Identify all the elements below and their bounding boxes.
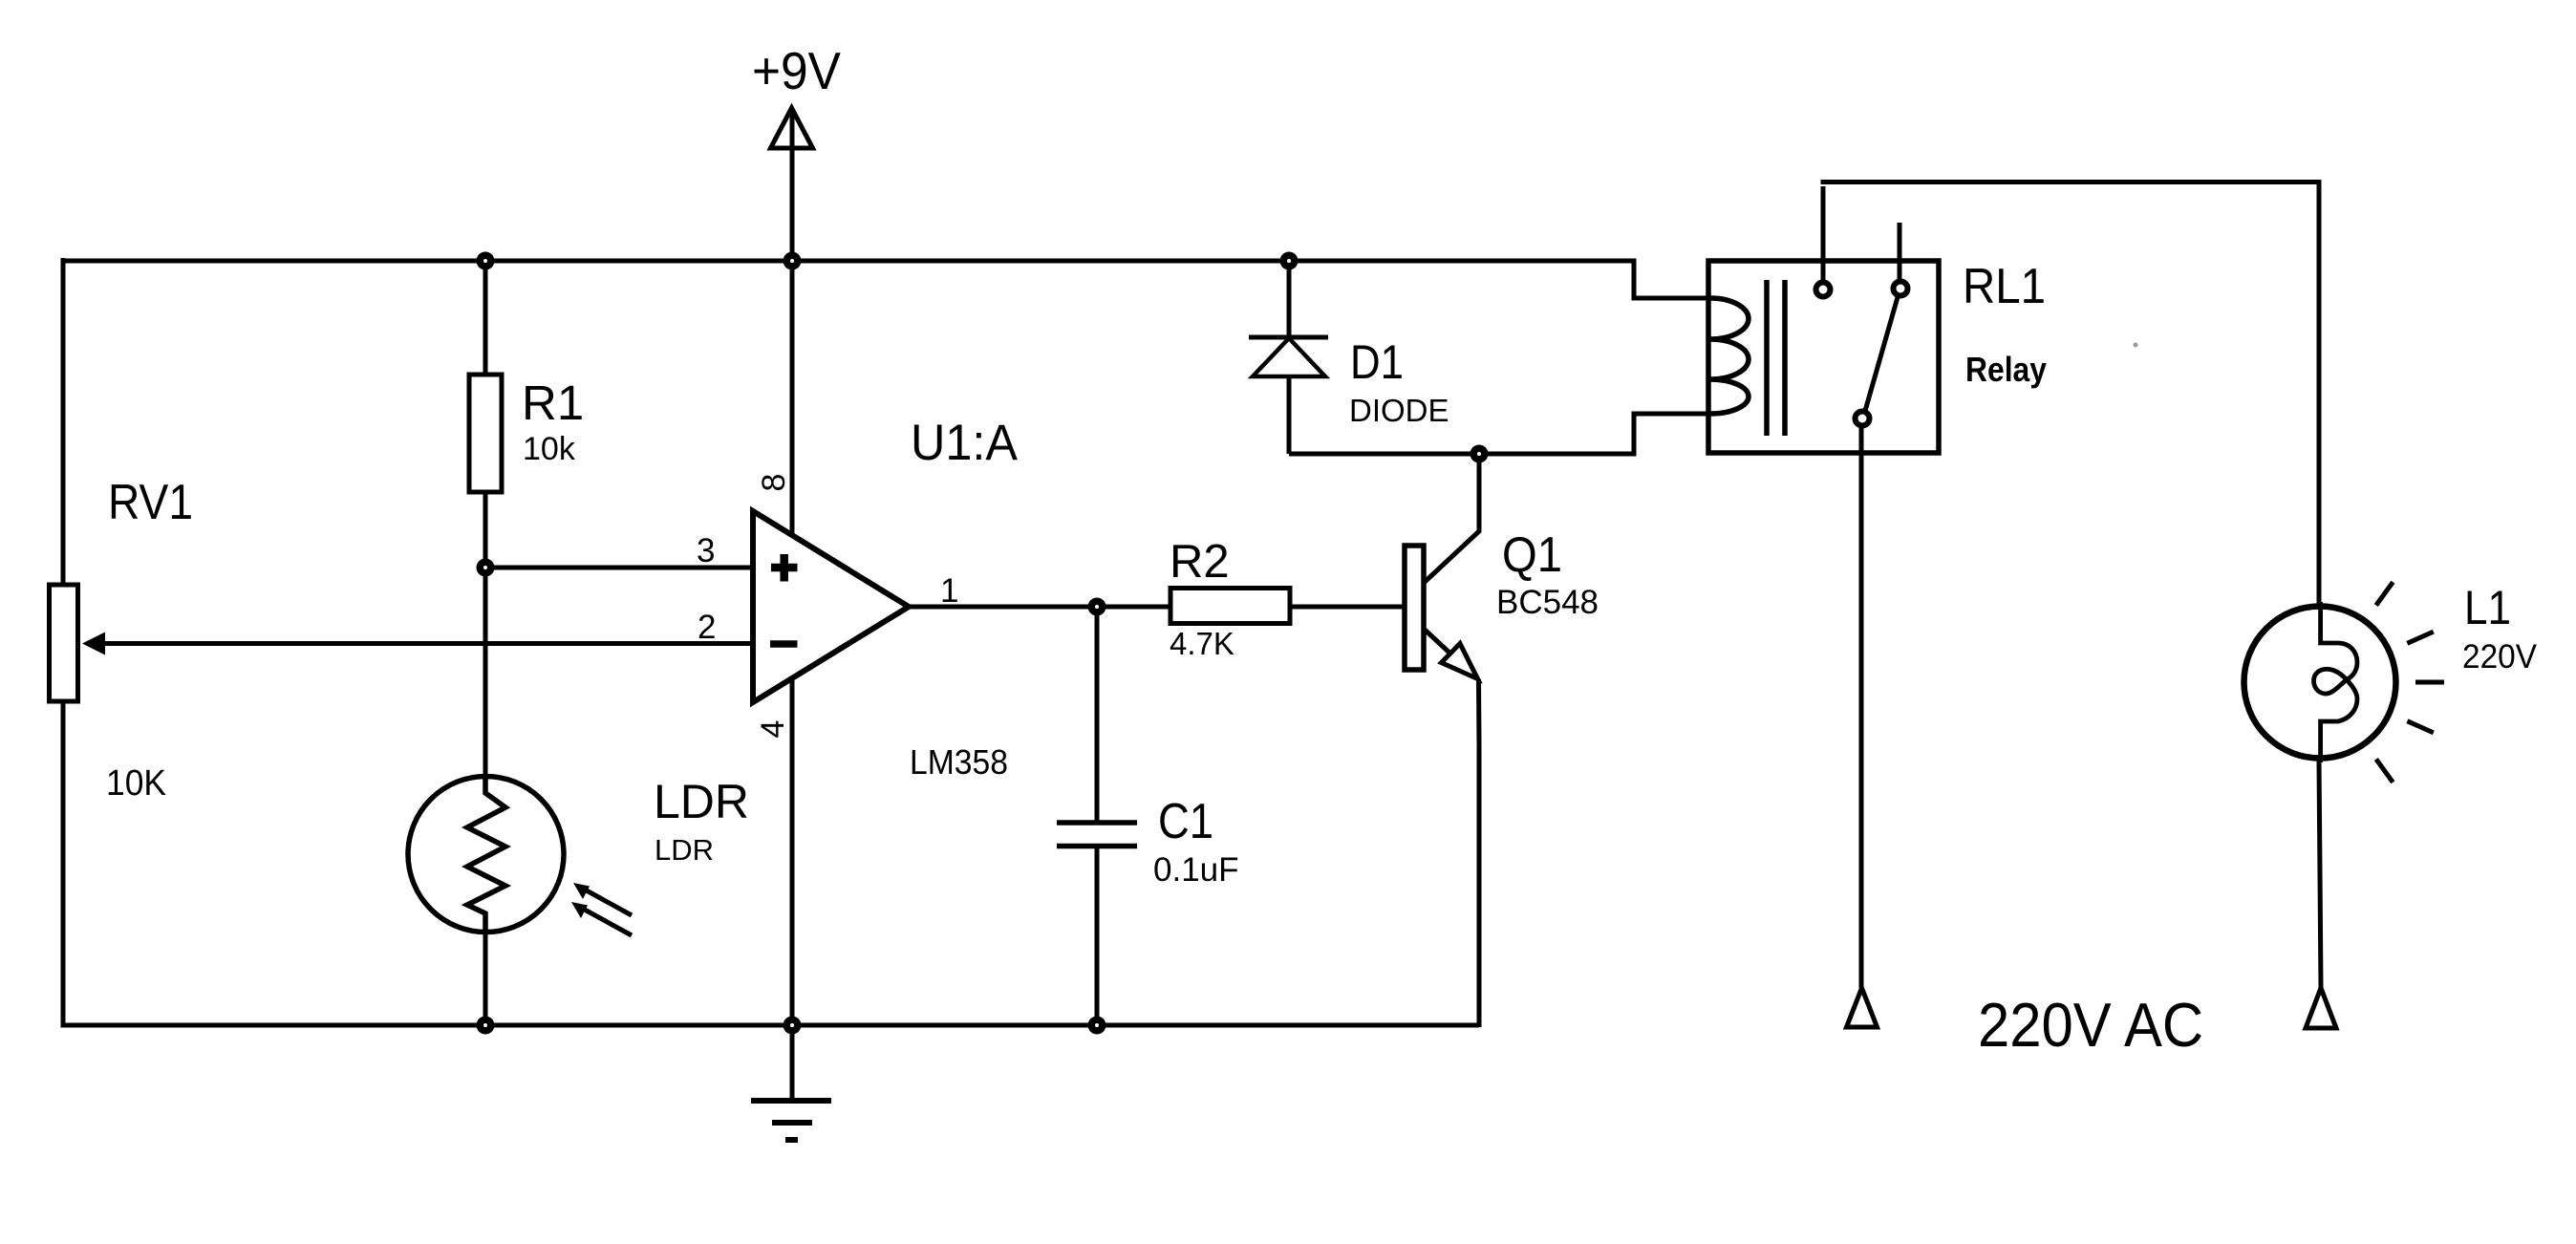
svg-text:Relay: Relay bbox=[1965, 350, 2047, 389]
svg-text:2: 2 bbox=[698, 609, 716, 646]
svg-text:R2: R2 bbox=[1170, 536, 1230, 588]
svg-text:0.1uF: 0.1uF bbox=[1153, 851, 1239, 889]
svg-text:DIODE: DIODE bbox=[1349, 393, 1449, 428]
svg-text:4: 4 bbox=[755, 720, 791, 739]
svg-text:C1: C1 bbox=[1158, 794, 1213, 849]
svg-text:BC548: BC548 bbox=[1496, 584, 1599, 621]
svg-text:220V: 220V bbox=[2462, 638, 2538, 676]
svg-text:L1: L1 bbox=[2464, 581, 2511, 634]
svg-text:Q1: Q1 bbox=[1502, 527, 1562, 583]
svg-text:RL1: RL1 bbox=[1963, 259, 2046, 314]
svg-text:U1:A: U1:A bbox=[911, 415, 1019, 471]
svg-text:R1: R1 bbox=[522, 375, 584, 430]
svg-text:1: 1 bbox=[940, 572, 958, 610]
svg-text:4.7K: 4.7K bbox=[1170, 626, 1234, 661]
svg-text:+9V: +9V bbox=[752, 41, 841, 100]
svg-text:10K: 10K bbox=[106, 763, 166, 804]
svg-text:220V AC: 220V AC bbox=[1978, 990, 2203, 1060]
svg-text:LDR: LDR bbox=[655, 833, 714, 867]
svg-text:3: 3 bbox=[697, 532, 715, 569]
svg-text:10k: 10k bbox=[523, 431, 576, 467]
svg-text:LM358: LM358 bbox=[910, 742, 1008, 782]
svg-text:RV1: RV1 bbox=[108, 475, 193, 530]
svg-text:D1: D1 bbox=[1350, 335, 1404, 389]
svg-text:LDR: LDR bbox=[654, 775, 749, 828]
svg-text:8: 8 bbox=[756, 474, 792, 492]
